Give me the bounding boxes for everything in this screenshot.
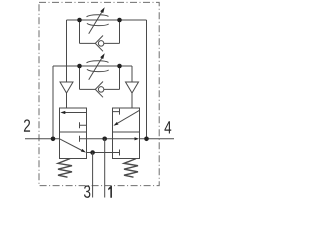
check valve 1 ball [98,41,104,47]
check valve 2 seat [95,82,103,98]
throttle 2 arcs [87,61,109,72]
wire: pilot stub into valve V2 [131,93,133,108]
pilot triangle left [60,82,73,93]
wire: check valve 1 branch [80,20,120,43]
valve V2 top square diagonal flow arrow [118,110,140,123]
junction (flow control 1 left) [77,18,82,23]
port label 3 [84,185,90,198]
throttle 1 arcs [87,15,109,26]
wire: right rail from flow control 1 down to port 4 junction [146,20,148,139]
wire: port 1 riser [104,139,106,198]
check valve 1 seat [95,36,103,52]
pilot triangle right [126,82,139,93]
junction (port 4 / right rail) [144,137,149,142]
junction (port 3 branch) [90,150,95,155]
wire: left rail from flow control 1 down to pilot triangle [66,20,68,82]
port label 4 [164,121,171,133]
junction (port 2 / riser) [51,137,56,142]
junction (flow control 2 left) [77,64,82,69]
junction (flow control 2 right) [117,64,122,69]
valve V1 top square blocked port [80,122,87,128]
valve V1 body (left 3/2 valve) [60,108,87,159]
junction (port 1 branch) [102,137,107,142]
wire: check valve 2 branch [80,66,120,89]
valve V2 bottom square blocked port [113,150,120,156]
valve V1 bottom square blocked port [80,136,87,142]
wire: port 4 line [140,138,175,140]
wire: flow control 1 main line [67,19,147,21]
valve V2 bottom square flow arrow [113,138,135,140]
throttle 2 adjustment arrow [89,57,103,79]
valve V2 body (right 3/2 valve) [113,108,140,159]
port label 1 [108,186,112,198]
wire: port 2 riser [52,66,54,139]
wire: port 2 line [25,138,60,140]
junction (flow control 1 right) [117,18,122,23]
wire: flow control 2 right drop to pilot triangle [131,66,133,82]
wire: port 3 riser [92,153,94,198]
wire: line between valves (2-4 level) [87,138,113,140]
port label 2 [24,119,30,131]
wire: port 3 line [87,152,113,154]
wire: flow control 2 main line [53,65,132,67]
spring of valve V2 [124,159,138,178]
enclosure (dash-dot assembly boundary) [39,2,159,185]
valve V1 bottom square diagonal flow arrow [60,139,83,151]
check valve 2 ball [98,87,104,93]
spring of valve V1 [58,159,72,178]
valve V2 top square blocked port [113,109,120,115]
wire: pilot stub into valve V1 [66,93,68,108]
throttle 1 adjustment arrow [89,11,103,34]
valve V1 top square flow arrow [65,112,87,114]
